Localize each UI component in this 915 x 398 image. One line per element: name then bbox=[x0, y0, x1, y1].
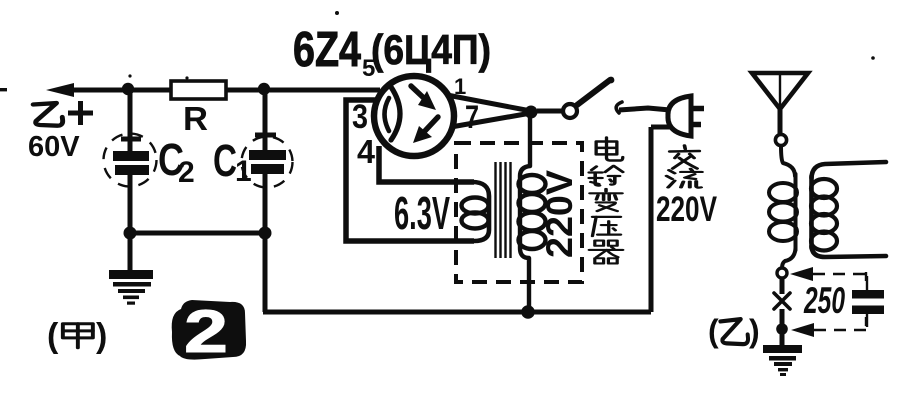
svg-text:220V: 220V bbox=[539, 170, 580, 258]
svg-text:7: 7 bbox=[465, 99, 479, 135]
svg-text:C: C bbox=[213, 135, 237, 186]
svg-text:(6Ц4П): (6Ц4П) bbox=[371, 26, 491, 73]
svg-text:R: R bbox=[183, 100, 208, 137]
svg-text:): ) bbox=[96, 317, 107, 355]
svg-text:250: 250 bbox=[803, 280, 845, 321]
svg-text:1: 1 bbox=[235, 155, 252, 188]
svg-text:1: 1 bbox=[454, 74, 466, 99]
svg-text:(: ( bbox=[708, 313, 719, 349]
svg-text:2: 2 bbox=[178, 156, 195, 189]
svg-text:60V: 60V bbox=[28, 131, 80, 163]
svg-text:6.3V: 6.3V bbox=[394, 187, 450, 239]
svg-text:6Z4: 6Z4 bbox=[293, 23, 361, 77]
svg-text:220V: 220V bbox=[656, 190, 717, 229]
svg-text:2: 2 bbox=[184, 298, 228, 365]
svg-text:3: 3 bbox=[352, 98, 368, 136]
svg-text:): ) bbox=[749, 313, 760, 349]
svg-text:4: 4 bbox=[357, 133, 376, 170]
svg-text:(: ( bbox=[47, 317, 59, 355]
